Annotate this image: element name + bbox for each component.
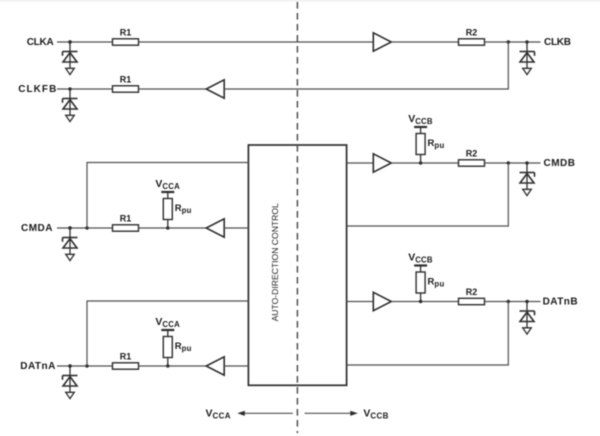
junction DATnA/ESD (68, 364, 71, 367)
buffer CMD B-side driver (direction A-to-B) (373, 154, 391, 172)
power rail VCCA tap (DATnA pull-up) (161, 330, 174, 337)
VCCB domain arrow (305, 411, 358, 416)
resistor Rpu (CMDA pull-up) (163, 199, 172, 229)
ground arrow (CMDA) (66, 254, 75, 260)
label VCCB (CMDB pull-up) (408, 113, 433, 126)
resistor R1 (CLKA row) (113, 39, 139, 45)
partition dashed line (VCCA/VCCB domain boundary) (296, 2, 298, 433)
label R1 (CMDA row) (120, 214, 132, 224)
ESD protection diode (CMDB) (520, 161, 535, 189)
junction CMDA/sense riser (85, 226, 88, 229)
wire R1 to buffer input (CLK) (139, 41, 374, 43)
svg-text:AUTO-DIRECTION CONTROL: AUTO-DIRECTION CONTROL (270, 203, 280, 321)
resistor R1 (DATnA row) (113, 363, 139, 369)
resistor R2 (CLKB row) (459, 39, 485, 45)
svg-text:CMDB: CMDB (544, 158, 576, 169)
svg-text:CLKB: CLKB (544, 37, 571, 48)
resistor R2 (CMDB row) (459, 160, 485, 166)
label R2 (CLKB row) (466, 28, 478, 38)
node CMDB label (544, 158, 576, 169)
wire R2 to CLKB node (485, 41, 541, 43)
wire CLKFB feedback from CLKB node (224, 42, 508, 89)
svg-text:R2: R2 (466, 287, 478, 297)
power rail VCCB tap (CMDB pull-up) (414, 127, 427, 134)
node DATnB label (543, 296, 578, 307)
node CMDA label (21, 223, 53, 234)
svg-text:R1: R1 (120, 214, 132, 224)
label R1 (DATnA row) (120, 352, 132, 362)
buffer CLK driver (direction A-to-B) (373, 33, 391, 51)
resistor R1 (CMDA row) (113, 225, 139, 231)
svg-text:R1: R1 (120, 75, 132, 85)
wire R1 to feedback buffer output (CLKFB) (139, 88, 207, 90)
ground arrow (CMDB) (523, 189, 532, 195)
ground arrow (CLKB) (523, 68, 532, 74)
ground arrow (CLKFB) (66, 115, 75, 121)
junction CMDB/sense riser (507, 161, 510, 164)
wire B-side buffer to R2 (CMD) (391, 162, 458, 164)
wire R1 to A-side buffer (DAT) (139, 365, 207, 367)
VCCA domain arrow (237, 411, 292, 416)
svg-text:CLKA: CLKA (27, 37, 54, 48)
label Rpu (DATnA pull-up) (175, 341, 192, 353)
wire R2 to CMDB node (485, 162, 541, 164)
junction Rpu/CMDA pull-up (166, 226, 169, 229)
junction DATnB/sense riser (507, 300, 510, 303)
wire DAT A-side buffer to control block (224, 365, 248, 367)
power rail VCCA tap (CMDA pull-up) (161, 192, 174, 199)
node CLKB label (544, 37, 571, 48)
ESD protection diode (CLKB) (520, 40, 535, 68)
resistor Rpu (DATnB pull-up) (416, 272, 425, 302)
control block U1 AUTO-DIRECTION CONTROL (248, 145, 346, 385)
label R2 (CMDB row) (466, 149, 478, 159)
node CLKFB label (18, 84, 56, 95)
buffer DAT B-side driver (direction A-to-B) (373, 292, 391, 310)
wire CMD A-side buffer to control block (224, 227, 248, 229)
resistor R1 (CLKFB row) (113, 86, 139, 92)
resistor Rpu (CMDB pull-up) (416, 134, 425, 164)
svg-text:CMDA: CMDA (21, 223, 53, 234)
junction CLKA/ESD (68, 40, 71, 43)
label VCCB (DATnB pull-up) (408, 252, 433, 265)
wire CLKFB to R1 (57, 88, 113, 90)
wire DATnB sense return to control block (B side) (347, 302, 509, 366)
svg-text:R1: R1 (120, 28, 132, 38)
wire control block to B-side buffer (DAT) (347, 301, 374, 303)
wire CMDB sense return to control block (B side) (347, 163, 509, 226)
wire buffer output to R2 (CLK) (391, 41, 458, 43)
svg-text:R2: R2 (466, 28, 478, 38)
junction Rpu/DATnA pull-up (166, 364, 169, 367)
label VCCA (DATnA pull-up) (155, 316, 180, 329)
label R1 (CLKA row) (120, 28, 132, 38)
resistor R2 (DATnB row) (459, 298, 485, 304)
ESD protection diode (DATnB) (520, 300, 535, 328)
label R1 (CLKFB row) (120, 75, 132, 85)
junction CLKB/feedback (507, 40, 510, 43)
ground arrow (DATnA) (66, 392, 75, 398)
node CLKA label (27, 37, 54, 48)
label VCCA (domain) (206, 408, 231, 421)
buffer CMD A-side driver (direction B-to-A) (206, 219, 224, 237)
junction Rpu/CMDB pull-up (419, 161, 422, 164)
ground arrow (CLKA) (66, 68, 75, 74)
label VCCA (CMDA pull-up) (155, 178, 180, 191)
wire CMDA sense to control block (A side) (87, 163, 248, 229)
junction Rpu/DATnB pull-up (419, 300, 422, 303)
wire DATnA sense to control block (A side) (87, 301, 248, 366)
junction DATnA/sense riser (85, 364, 88, 367)
power rail VCCB tap (DATnB pull-up) (414, 266, 427, 273)
svg-text:DATnA: DATnA (20, 361, 55, 372)
wire CMDA to R1 (57, 227, 113, 229)
svg-text:R1: R1 (120, 352, 132, 362)
wire R2 to DATnB node (485, 301, 541, 303)
wire DATnA to R1 (57, 365, 113, 367)
svg-text:R2: R2 (466, 149, 478, 159)
node DATnA label (20, 361, 55, 372)
wire B-side buffer to R2 (DAT) (391, 301, 458, 303)
label Rpu (CMDB pull-up) (428, 138, 445, 150)
resistor Rpu (DATnA pull-up) (163, 337, 172, 367)
label VCCB (domain) (363, 408, 388, 421)
label Rpu (DATnB pull-up) (428, 277, 445, 289)
label R2 (DATnB row) (466, 287, 478, 297)
wire control block to B-side buffer (CMD) (347, 162, 374, 164)
label AUTO-DIRECTION CONTROL (270, 203, 280, 321)
svg-text:CLKFB: CLKFB (18, 84, 56, 95)
buffer CLK feedback driver (direction B-to-A) (206, 80, 224, 98)
ground arrow (DATnB) (523, 328, 532, 334)
junction CMDA/ESD (68, 226, 71, 229)
wire R1 to A-side buffer (CMD) (139, 227, 207, 229)
ESD protection diode (CLKFB) (63, 87, 78, 115)
svg-text:DATnB: DATnB (543, 296, 578, 307)
wire CLKA to R1 (57, 41, 113, 43)
buffer DAT A-side driver (direction B-to-A) (206, 357, 224, 375)
ESD protection diode (CLKA) (63, 40, 78, 68)
label Rpu (CMDA pull-up) (175, 203, 192, 215)
ESD protection diode (DATnA) (63, 364, 78, 392)
ESD protection diode (CMDA) (63, 226, 78, 254)
